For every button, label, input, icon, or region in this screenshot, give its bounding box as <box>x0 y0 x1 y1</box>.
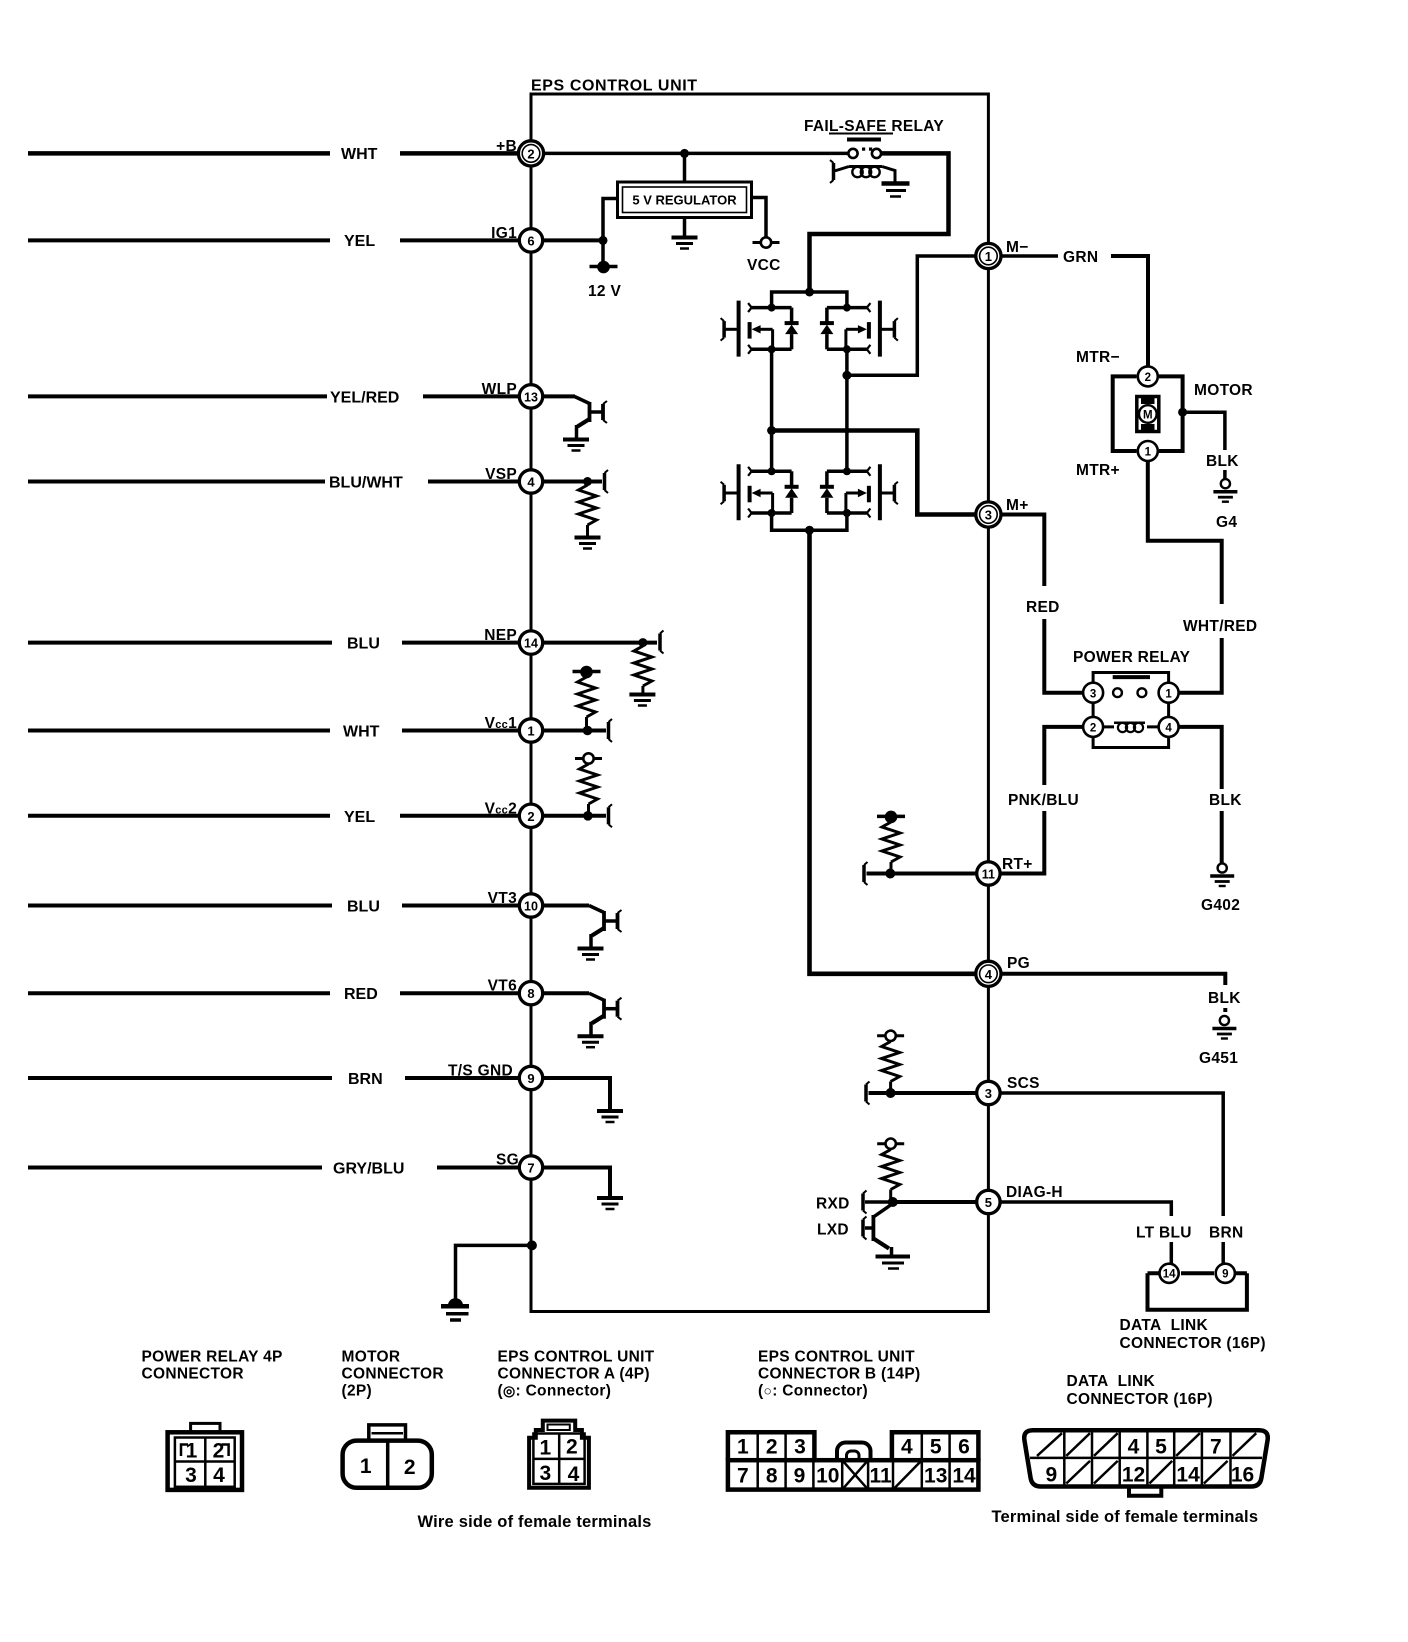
wire BLU to NEP <box>28 636 519 653</box>
svg-text:DIAG-H: DIAG-H <box>1006 1184 1063 1201</box>
svg-text:RT+: RT+ <box>1002 856 1033 873</box>
legend heading EPS connector B <box>758 1349 920 1400</box>
svg-text:WLP: WLP <box>482 381 517 398</box>
resistor R7 DIAG-H pull-up <box>882 1150 900 1190</box>
wire SCS pin to data link pin 9 <box>1000 1093 1224 1216</box>
transistor Q8 LXD with ground <box>873 1204 910 1269</box>
svg-text:BLK: BLK <box>1208 990 1241 1007</box>
svg-text:VT6: VT6 <box>488 978 517 995</box>
svg-text:9: 9 <box>1222 1269 1228 1281</box>
svg-text:EPS CONTROL UNIT: EPS CONTROL UNIT <box>531 78 698 95</box>
tick at Vcc1 wire end <box>609 719 613 742</box>
pin 14 NEP <box>484 627 542 654</box>
svg-text:BLU/WHT: BLU/WHT <box>329 475 403 492</box>
power relay K2 <box>1073 649 1191 748</box>
wire resistor to SCS junction <box>889 1082 892 1094</box>
wire DIAG-H pin to junction <box>893 1200 977 1204</box>
transistor Q6 VT3 driver with ground <box>578 906 622 960</box>
pin 3 M+ (connector A) <box>976 497 1029 527</box>
junction on NEP wire <box>638 638 647 647</box>
svg-text:4: 4 <box>527 475 535 490</box>
wire YEL to IG1 <box>28 233 519 250</box>
wire M- pin to GRN <box>1001 254 1058 258</box>
svg-text:2: 2 <box>766 1436 778 1459</box>
tick at VSP wire end <box>605 470 609 493</box>
svg-text:12 V: 12 V <box>588 283 621 300</box>
junction on bus at internal ground <box>527 1240 537 1250</box>
wire power relay pin 2 to RT+ <box>1044 727 1083 785</box>
resistor R1 VSP pull-down <box>579 485 597 525</box>
svg-text:9: 9 <box>527 1071 534 1086</box>
junction on Vcc1 wire <box>583 726 593 736</box>
pin 2 +B (connector A) <box>496 138 543 166</box>
pin 4 VSP <box>485 466 543 493</box>
resistor R4 Vcc2 pull-up <box>580 764 598 804</box>
wire BLU/WHT to VSP <box>28 475 519 492</box>
svg-text:1: 1 <box>737 1436 749 1459</box>
svg-text:1: 1 <box>540 1436 552 1459</box>
svg-text:G4: G4 <box>1216 514 1237 531</box>
wire left half-bridge mid <box>770 349 774 471</box>
svg-text:+B: +B <box>496 138 517 155</box>
svg-text:3: 3 <box>540 1462 552 1485</box>
pin 4 PG (connector A) <box>976 955 1030 986</box>
svg-text:(◎: Connector): (◎: Connector) <box>498 1383 612 1400</box>
svg-text:LXD: LXD <box>817 1222 849 1239</box>
tick at NEP wire end <box>660 631 664 654</box>
ground G451 <box>1199 1016 1238 1067</box>
svg-text:1: 1 <box>1165 688 1172 700</box>
wire M+ pin to RED <box>1001 515 1044 587</box>
svg-text:POWER RELAY: POWER RELAY <box>1073 649 1191 666</box>
fail-safe relay K1 <box>804 118 944 183</box>
svg-text:16: 16 <box>1231 1463 1254 1486</box>
wire BLK to G402 <box>1220 811 1224 863</box>
transistor Q5 WLP driver with ground <box>563 397 607 451</box>
svg-text:11: 11 <box>869 1464 892 1487</box>
wire motor case to G4 ground <box>1183 412 1225 450</box>
pin 5 DIAG-H <box>977 1184 1063 1214</box>
svg-text:2: 2 <box>213 1440 225 1463</box>
svg-text:2: 2 <box>566 1436 578 1459</box>
wire RED to power relay pin 3 <box>1044 619 1083 693</box>
svg-text:BRN: BRN <box>1209 1225 1243 1242</box>
svg-text:M: M <box>1143 410 1153 422</box>
svg-text:WHT: WHT <box>341 146 378 163</box>
svg-text:Wire side of female terminals: Wire side of female terminals <box>418 1513 652 1531</box>
wire VT3 pin to transistor <box>544 904 590 908</box>
wire resistor to DIAG-H junction <box>889 1190 892 1203</box>
resistor R5 RT+ pull-up <box>882 822 900 862</box>
svg-text:LT BLU: LT BLU <box>1136 1225 1192 1242</box>
svg-text:SCS: SCS <box>1007 1075 1040 1092</box>
svg-text:10: 10 <box>524 900 538 914</box>
mosfet Q3 bottom-left <box>721 464 799 520</box>
ground at T/S GND <box>597 1111 623 1122</box>
pin 1 Vcc1 <box>485 715 543 742</box>
svg-text:9: 9 <box>1046 1463 1058 1486</box>
junction on Vcc2 wire <box>583 811 593 821</box>
svg-text:CONNECTOR (16P): CONNECTOR (16P) <box>1120 1335 1266 1352</box>
resistor R3 Vcc1 pull-up <box>578 677 596 717</box>
wire GRY/BLU to SG <box>28 1161 519 1178</box>
pin 2 Vcc2 <box>485 801 543 828</box>
transistor Q7 VT6 driver with ground <box>578 993 622 1047</box>
wire SG pin to ground <box>544 1168 611 1197</box>
EPS connector A 4P drawing <box>529 1421 589 1488</box>
VCC supply at SCS resistor <box>877 1031 904 1041</box>
12V supply at Vcc1 resistor <box>573 666 601 679</box>
svg-text:BLK: BLK <box>1209 792 1242 809</box>
svg-text:8: 8 <box>766 1464 778 1487</box>
ground at VSP resistor <box>575 538 601 549</box>
wire resistor to Vcc2 junction <box>587 804 590 816</box>
junction at bridge bottom <box>805 526 814 535</box>
svg-text:4: 4 <box>1128 1436 1140 1459</box>
LXD label and tick <box>817 1217 872 1240</box>
wire DIAG-H pin to data link pin 14 <box>1000 1202 1172 1216</box>
wire resistor to ground <box>641 686 644 693</box>
svg-text:YEL: YEL <box>344 233 375 250</box>
EPS connector B 14P drawing <box>728 1432 979 1489</box>
svg-text:3: 3 <box>185 1464 197 1487</box>
wire WHT/RED to power relay pin 1 <box>1178 638 1222 693</box>
svg-text:WHT: WHT <box>343 724 380 741</box>
svg-text:BLU: BLU <box>347 636 380 653</box>
wire junction down to regulator <box>683 153 687 182</box>
svg-text:GRN: GRN <box>1063 249 1098 266</box>
junction on SCS wire <box>886 1088 896 1098</box>
svg-text:2: 2 <box>527 146 534 161</box>
svg-text:7: 7 <box>737 1464 749 1487</box>
svg-text:MTR+: MTR+ <box>1076 462 1120 479</box>
svg-text:CONNECTOR: CONNECTOR <box>142 1366 244 1383</box>
svg-text:Vcc2: Vcc2 <box>485 801 517 818</box>
svg-text:1: 1 <box>186 1440 198 1463</box>
wire LT BLU to data link pin 14 <box>1170 1242 1174 1264</box>
wire resistor to ground <box>586 525 589 536</box>
wire BRN to T/S GND <box>28 1071 519 1088</box>
power relay 4P connector drawing <box>168 1423 242 1490</box>
wire WHT to Vcc1 <box>28 724 519 741</box>
wire BLU to VT3 <box>28 899 519 916</box>
wire M+ to pin 3 <box>772 431 976 515</box>
svg-text:PNK/BLU: PNK/BLU <box>1008 792 1079 809</box>
svg-text:T/S GND: T/S GND <box>448 1063 513 1080</box>
svg-text:2: 2 <box>404 1456 416 1479</box>
svg-text:DATA LINK: DATA LINK <box>1067 1373 1156 1390</box>
wire BLK to G4 <box>1223 470 1227 479</box>
wire T/S GND pin to ground <box>544 1078 611 1109</box>
svg-text:2: 2 <box>1145 372 1151 384</box>
wire Vcc1 pin to tick <box>544 729 607 733</box>
svg-text:4: 4 <box>901 1436 913 1459</box>
svg-text:4: 4 <box>985 967 993 982</box>
svg-text:14: 14 <box>952 1464 976 1487</box>
junction at bridge top <box>805 288 814 297</box>
wire resistor to Vcc1 junction <box>585 717 588 731</box>
wire junction to 12V supply <box>601 240 605 262</box>
junction M- at right FET <box>842 371 851 380</box>
svg-text:6: 6 <box>958 1436 970 1459</box>
pin 7 SG <box>496 1152 543 1180</box>
resistor R2 NEP pull-down <box>634 646 652 686</box>
svg-text:(2P): (2P) <box>342 1383 372 1400</box>
svg-text:3: 3 <box>794 1436 806 1459</box>
resistor R6 SCS pull-up <box>882 1042 900 1082</box>
wire regulator right lead to VCC <box>752 198 767 238</box>
VCC supply at Vcc2 resistor <box>575 753 602 763</box>
data link connector 16P drawing <box>1024 1430 1268 1496</box>
pin 9 T/S GND <box>448 1063 543 1090</box>
svg-text:BLK: BLK <box>1206 453 1239 470</box>
svg-text:14: 14 <box>524 637 538 651</box>
5V regulator U1 <box>618 182 752 218</box>
svg-text:1: 1 <box>527 724 534 739</box>
junction on IG1 wire <box>599 236 608 245</box>
svg-text:MOTOR: MOTOR <box>1194 382 1253 399</box>
svg-text:4: 4 <box>213 1464 225 1487</box>
wire bridge bottom to PG pin 4 <box>810 530 977 974</box>
motor M1 <box>1076 366 1253 479</box>
svg-text:RED: RED <box>1026 599 1060 616</box>
wire VT6 pin to transistor <box>544 991 590 995</box>
svg-text:MOTOR: MOTOR <box>342 1349 401 1366</box>
svg-text:2: 2 <box>527 809 534 824</box>
data link pin 9 <box>1216 1264 1235 1283</box>
tick at SCS wire end <box>866 1082 870 1105</box>
mosfet Q1 top-left <box>721 301 799 357</box>
svg-text:5 V REGULATOR: 5 V REGULATOR <box>632 193 737 208</box>
legend heading power relay 4P connector <box>142 1349 283 1383</box>
svg-text:G451: G451 <box>1199 1050 1238 1067</box>
wire bridge top rail <box>772 292 847 308</box>
wire VSP pin to tick <box>544 480 603 484</box>
svg-text:10: 10 <box>816 1464 839 1487</box>
mosfet Q2 top-right <box>820 301 898 357</box>
svg-text:WHT/RED: WHT/RED <box>1183 618 1257 635</box>
svg-text:1: 1 <box>360 1455 372 1478</box>
svg-text:4: 4 <box>568 1463 580 1486</box>
wire bridge bottom rail <box>772 513 847 530</box>
svg-text:POWER RELAY 4P: POWER RELAY 4P <box>142 1349 283 1366</box>
svg-text:3: 3 <box>985 1086 992 1101</box>
svg-text:IG1: IG1 <box>491 225 517 242</box>
junction on +B wire <box>680 149 689 158</box>
svg-text:RED: RED <box>344 986 378 1003</box>
wire motor MTR+ down <box>1148 461 1222 604</box>
svg-text:CONNECTOR B (14P): CONNECTOR B (14P) <box>758 1366 920 1383</box>
legend heading data link connector <box>1067 1373 1213 1408</box>
junction M+ at left FET <box>767 426 776 435</box>
svg-text:7: 7 <box>527 1161 534 1176</box>
wire power relay pin 4 to G402 <box>1178 727 1222 789</box>
12V supply at RT+ resistor <box>877 811 905 824</box>
svg-text:SG: SG <box>496 1152 519 1169</box>
VCC supply symbol <box>747 237 781 274</box>
wire GRN to motor MTR- <box>1111 256 1148 366</box>
mosfet Q4 bottom-right <box>820 464 898 520</box>
wire M- to pin 1 <box>847 256 976 375</box>
svg-text:G402: G402 <box>1201 897 1240 914</box>
internal chassis ground <box>441 1298 469 1320</box>
svg-text:8: 8 <box>527 986 534 1001</box>
wire PNK/BLU to RT+ pin 11 <box>1001 811 1044 874</box>
wire RT+ pin to tick <box>867 872 978 876</box>
VCC supply at DIAG-H resistor <box>877 1139 904 1149</box>
wire BRN to data link pin 9 <box>1221 1242 1225 1264</box>
svg-text:VSP: VSP <box>485 466 517 483</box>
svg-text:BLU: BLU <box>347 899 380 916</box>
svg-text:CONNECTOR (16P): CONNECTOR (16P) <box>1067 1391 1213 1408</box>
svg-text:13: 13 <box>524 390 538 404</box>
junction on motor case to ground <box>1178 408 1187 417</box>
svg-text:YEL: YEL <box>344 809 375 826</box>
legend heading EPS connector A <box>498 1349 655 1400</box>
pin 1 M- (connector A) <box>976 239 1029 269</box>
pin 3 SCS <box>977 1075 1040 1105</box>
wire PG pin to G451 <box>1000 974 1225 985</box>
svg-text:4: 4 <box>1165 723 1172 735</box>
ground G4 <box>1213 479 1237 531</box>
svg-text:13: 13 <box>924 1464 947 1487</box>
svg-text:14: 14 <box>1176 1463 1200 1486</box>
legend heading motor connector <box>342 1349 444 1400</box>
ground at SG <box>597 1198 623 1209</box>
wire relay contact to H-bridge feed <box>810 153 949 292</box>
ground at regulator <box>672 238 698 249</box>
data link connector label <box>1120 1317 1266 1352</box>
wire resistor to RT+ junction <box>890 862 893 874</box>
ground at NEP resistor <box>629 695 655 706</box>
svg-text:RXD: RXD <box>816 1196 850 1213</box>
pin 10 VT3 <box>488 890 543 917</box>
svg-text:5: 5 <box>985 1195 992 1210</box>
wire WHT to +B <box>28 146 519 163</box>
svg-text:14: 14 <box>1163 1269 1176 1281</box>
svg-text:VT3: VT3 <box>488 890 517 907</box>
svg-text:PG: PG <box>1007 955 1030 972</box>
svg-text:GRY/BLU: GRY/BLU <box>333 1161 404 1178</box>
junction on DIAG-H wire <box>888 1197 898 1207</box>
wire SCS pin to tick <box>869 1091 978 1095</box>
wire regulator bottom to ground <box>683 218 687 237</box>
wire +B pin to fail-safe relay contact <box>544 152 849 156</box>
junction on RT+ wire <box>885 869 895 879</box>
svg-text:3: 3 <box>1090 688 1096 700</box>
svg-text:11: 11 <box>982 868 995 882</box>
wire bus to internal chassis ground <box>456 1245 532 1300</box>
svg-text:M+: M+ <box>1006 497 1029 514</box>
wire Vcc2 pin to tick <box>544 814 607 818</box>
svg-text:3: 3 <box>985 508 992 523</box>
wire right half-bridge mid <box>845 349 849 471</box>
svg-text:12: 12 <box>1122 1463 1145 1486</box>
pin 6 IG1 <box>491 225 543 252</box>
svg-text:M−: M− <box>1006 239 1029 256</box>
wire RED to VT6 <box>28 986 519 1003</box>
ground at fail-safe relay coil <box>882 184 910 197</box>
svg-text:7: 7 <box>1210 1436 1222 1459</box>
svg-text:CONNECTOR: CONNECTOR <box>342 1366 444 1383</box>
svg-text:6: 6 <box>527 233 534 248</box>
svg-text:(○: Connector): (○: Connector) <box>758 1383 868 1400</box>
motor connector 2P drawing <box>343 1425 432 1488</box>
EPS control unit box <box>531 78 988 1312</box>
pin 11 RT+ <box>977 856 1033 885</box>
wire YEL to Vcc2 <box>28 809 519 826</box>
pin 13 WLP <box>482 381 543 408</box>
tick at Vcc2 wire end <box>609 804 613 827</box>
ground G402 <box>1201 863 1240 914</box>
svg-text:BRN: BRN <box>348 1071 383 1088</box>
svg-text:5: 5 <box>1155 1436 1167 1459</box>
svg-text:1: 1 <box>1145 447 1152 459</box>
svg-text:YEL/RED: YEL/RED <box>330 390 399 407</box>
junction on VSP wire <box>583 477 592 486</box>
tick at RT+ wire end <box>864 862 868 885</box>
wire IG1 pin to junction <box>544 238 605 242</box>
svg-text:EPS CONTROL UNIT: EPS CONTROL UNIT <box>498 1349 655 1366</box>
wire NEP pin to tick <box>544 641 658 645</box>
svg-text:CONNECTOR A (4P): CONNECTOR A (4P) <box>498 1366 650 1383</box>
RXD label and tick <box>816 1191 893 1214</box>
data link pin 14 <box>1160 1264 1179 1283</box>
svg-text:DATA LINK: DATA LINK <box>1120 1317 1209 1334</box>
svg-text:EPS CONTROL UNIT: EPS CONTROL UNIT <box>758 1349 915 1366</box>
12V supply symbol <box>588 261 621 300</box>
wire WLP pin to transistor <box>544 394 576 398</box>
svg-text:1: 1 <box>985 249 992 264</box>
svg-text:9: 9 <box>794 1464 806 1487</box>
svg-text:FAIL-SAFE RELAY: FAIL-SAFE RELAY <box>804 118 944 135</box>
pin 8 VT6 <box>488 978 543 1005</box>
svg-text:2: 2 <box>1090 723 1096 735</box>
svg-text:VCC: VCC <box>747 257 781 274</box>
svg-text:MTR−: MTR− <box>1076 349 1120 366</box>
svg-text:Vcc1: Vcc1 <box>485 715 517 732</box>
svg-text:Terminal side of female termin: Terminal side of female terminals <box>992 1508 1259 1526</box>
svg-text:NEP: NEP <box>484 627 517 644</box>
svg-text:5: 5 <box>930 1436 942 1459</box>
data link connector box <box>1148 1273 1247 1310</box>
wire YEL/RED to WLP <box>28 390 519 407</box>
wire regulator left lead to IG1 junction <box>603 199 618 241</box>
